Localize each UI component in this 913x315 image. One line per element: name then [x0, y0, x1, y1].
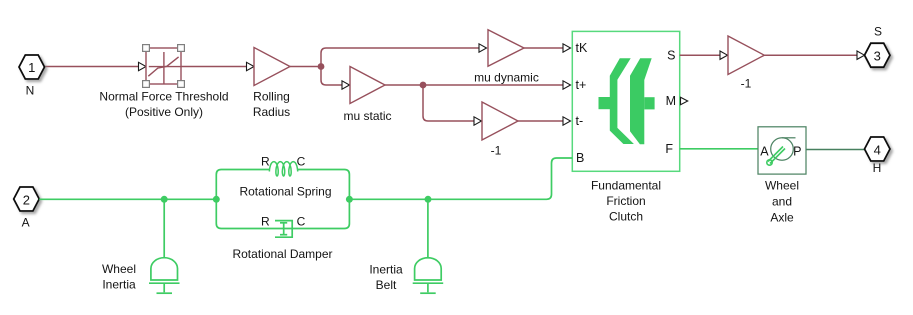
svg-text:Axle: Axle [770, 211, 794, 225]
svg-text:mu static: mu static [343, 109, 391, 123]
wire saturation to Rolling Radius [181, 66, 247, 68]
svg-text:R: R [261, 155, 270, 169]
wheel circle [771, 138, 794, 161]
svg-text:Rotational Damper: Rotational Damper [232, 247, 332, 261]
arrowhead saturation input [139, 62, 147, 70]
M unconnected output triangle [681, 97, 688, 104]
node spring-damper split [213, 196, 220, 203]
svg-text:P: P [793, 144, 801, 158]
svg-text:A: A [22, 216, 30, 230]
svg-text:Inertia: Inertia [369, 263, 403, 277]
svg-text:mu dynamic: mu dynamic [474, 70, 539, 84]
axle crank [767, 147, 785, 166]
wire mu dynamic to tK [524, 47, 563, 49]
svg-text:Rotational Spring: Rotational Spring [239, 185, 331, 199]
wire branch up to mu dynamic [321, 48, 479, 67]
svg-text:t-: t- [576, 114, 584, 128]
wire mu static to t+ [385, 84, 563, 86]
gain mu static [350, 67, 385, 104]
damper symbol [275, 221, 292, 238]
saturation block Normal Force Threshold [146, 48, 181, 84]
damper branch (bottom) [216, 199, 349, 228]
selection handles [143, 45, 185, 88]
svg-text:Wheel: Wheel [765, 179, 799, 193]
clutch icon left plate [610, 58, 634, 144]
svg-text:Friction: Friction [606, 194, 645, 208]
svg-text:-1: -1 [741, 77, 752, 91]
wire branch down to -1 [423, 85, 474, 121]
svg-text:Radius: Radius [253, 105, 290, 119]
Wheel Inertia symbol [149, 258, 180, 294]
clutch icon right shaft bar [644, 97, 654, 109]
svg-text:and: and [772, 194, 792, 208]
svg-text:C: C [297, 155, 306, 169]
clutch icon left shaft bar [599, 97, 611, 109]
svg-text:A: A [760, 144, 769, 158]
svg-text:1: 1 [28, 60, 35, 75]
inport 2 [14, 187, 40, 211]
tangent line [782, 137, 796, 139]
inport 1 [19, 55, 45, 79]
svg-text:Inertia: Inertia [102, 278, 136, 292]
svg-text:S: S [874, 25, 882, 39]
svg-text:S: S [667, 49, 675, 63]
svg-text:Wheel: Wheel [102, 262, 136, 276]
spring coil [269, 162, 297, 176]
svg-text:t+: t+ [576, 78, 587, 92]
wire -1 to outport 3 [764, 54, 857, 56]
node spring-damper join [346, 196, 353, 203]
branch node [318, 63, 325, 70]
branch node on t+ wire [420, 82, 427, 89]
wire F to Wheel and Axle [680, 148, 758, 150]
wire Rolling Radius to branch [290, 66, 321, 68]
wire A to spring-damper box [39, 198, 216, 200]
svg-text:F: F [665, 142, 673, 156]
wire P to outport 4 (translational, dark green) [806, 149, 865, 151]
clutch icon right plate [630, 58, 652, 144]
wire -1 to t- [518, 120, 563, 122]
outport 3 [865, 43, 891, 67]
outport 4 [865, 137, 891, 161]
svg-text:4: 4 [874, 143, 881, 158]
gain -1 (middle) [482, 102, 518, 140]
node wheel inertia branch [161, 196, 168, 203]
gain mu dynamic [488, 30, 524, 66]
svg-text:Belt: Belt [376, 278, 397, 292]
wire S to -1 gain [680, 54, 720, 56]
wire N to saturation [44, 66, 139, 68]
svg-text:Clutch: Clutch [609, 209, 643, 223]
svg-text:C: C [297, 215, 306, 229]
wire branch down to mu static [321, 67, 342, 86]
svg-text:(Positive Only): (Positive Only) [125, 105, 203, 119]
svg-text:B: B [576, 151, 584, 165]
svg-text:M: M [666, 94, 676, 108]
Fundamental Friction Clutch block [572, 31, 679, 171]
svg-text:2: 2 [23, 193, 30, 208]
wire down to Wheel Inertia [163, 199, 165, 258]
gain Rolling Radius [254, 48, 290, 86]
wire to clutch B [349, 158, 572, 199]
svg-text:-1: -1 [491, 144, 502, 158]
wire down to Inertia Belt [427, 199, 429, 258]
svg-text:N: N [26, 84, 35, 98]
svg-text:H: H [873, 161, 882, 175]
svg-text:R: R [261, 215, 270, 229]
node inertia belt branch [425, 196, 432, 203]
Wheel and Axle block [758, 127, 806, 174]
Inertia Belt symbol [413, 258, 444, 293]
gain -1 (top right) [728, 36, 764, 75]
svg-text:Normal Force Threshold: Normal Force Threshold [99, 89, 228, 103]
svg-text:Rolling: Rolling [253, 90, 290, 104]
svg-text:Fundamental: Fundamental [591, 178, 661, 192]
spring branch (top) [216, 170, 349, 200]
svg-text:3: 3 [874, 49, 881, 64]
svg-text:tK: tK [576, 41, 588, 55]
